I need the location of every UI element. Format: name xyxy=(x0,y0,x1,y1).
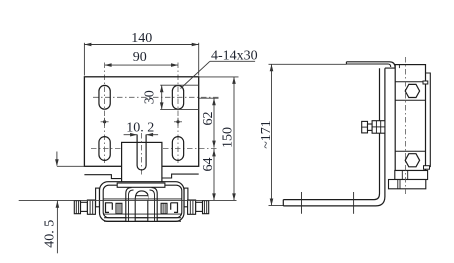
clamp trunnion bar top edge xyxy=(103,198,182,200)
bolt right head xyxy=(203,201,209,214)
clamp yoke inner xyxy=(103,185,182,218)
svg-text:40. 5: 40. 5 xyxy=(43,220,58,248)
bolt boss lower xyxy=(395,151,429,169)
node centerline row1 xyxy=(93,96,219,98)
node centerline row2 xyxy=(91,148,219,150)
tongue xyxy=(122,142,162,183)
node center mark left xyxy=(101,118,109,126)
clamp step1 xyxy=(395,171,428,180)
side view dash-dot centerline xyxy=(404,57,406,194)
svg-text:30: 30 xyxy=(143,90,158,104)
clamp saddle dome xyxy=(135,191,149,200)
clamp bottom bar lines across legs xyxy=(104,217,181,219)
clamp step2 xyxy=(389,180,426,189)
grease bolt shaft xyxy=(368,124,373,130)
grease bolt head xyxy=(362,121,368,132)
side washer tab right xyxy=(184,188,188,207)
slot top-right 14x30 xyxy=(172,85,183,109)
angle bracket leg end cap xyxy=(282,200,284,206)
U-slot in tongue xyxy=(137,135,146,170)
svg-text:~171: ~171 xyxy=(259,120,274,149)
dimension 90 xyxy=(105,50,178,67)
dimension 64 xyxy=(201,149,216,201)
slot bottom-right 14x30 xyxy=(172,137,183,161)
dimension 30 slot xyxy=(143,85,199,109)
svg-text:140: 140 xyxy=(131,31,152,46)
dimension 150 xyxy=(221,77,236,200)
bolt hex lower xyxy=(405,154,419,167)
angle bracket outer profile xyxy=(283,68,385,206)
hanger strap step right xyxy=(158,174,199,182)
svg-text:90: 90 xyxy=(133,50,147,65)
hanger strap step left xyxy=(84,175,125,183)
label 4-14x30 with leader xyxy=(181,49,258,89)
extension line row1 right xyxy=(199,97,219,99)
bolt right washer nut xyxy=(188,200,196,214)
bolt right shaft xyxy=(196,202,203,211)
dimension 62 xyxy=(201,98,216,147)
side washer tab left xyxy=(96,188,100,207)
U-slot centerline xyxy=(141,133,143,176)
wire extension line cable axis xyxy=(19,199,237,201)
clamp back plate edge xyxy=(426,73,431,167)
clamp trunnion bar bottom edge xyxy=(103,213,182,215)
angle leg hole centerline 2 xyxy=(353,192,355,214)
dimension 40.5 xyxy=(43,201,60,254)
dimension 10.2 xyxy=(124,120,159,136)
leader arrow plate bottom left xyxy=(55,152,84,167)
tongue flange xyxy=(117,183,165,187)
dimension 140 xyxy=(84,31,198,75)
node centerline column right xyxy=(177,63,179,164)
clamp leg left xyxy=(126,188,135,221)
angle bracket inner profile xyxy=(283,68,379,199)
nut inner left xyxy=(116,203,122,214)
clamp yoke outer xyxy=(100,182,185,222)
dimension ~171 xyxy=(259,64,347,205)
node centerline column left xyxy=(104,63,106,164)
bolt left shaft xyxy=(81,202,88,211)
clamp leg right xyxy=(148,188,157,221)
slot bottom-left 14x30 xyxy=(99,137,110,161)
extension line plate top right xyxy=(199,76,239,78)
slot top-left 14x30 xyxy=(99,85,110,109)
clamp body top edge xyxy=(385,67,422,69)
svg-text:62: 62 xyxy=(201,112,216,126)
keeper bracket right xyxy=(171,203,178,213)
svg-text:64: 64 xyxy=(201,158,216,172)
bolt boss upper xyxy=(395,65,428,101)
svg-text:150: 150 xyxy=(221,127,236,148)
clamp saddle chord xyxy=(135,195,149,197)
top lip outer xyxy=(346,62,395,68)
node center mark right xyxy=(174,118,182,126)
bolt left head xyxy=(74,201,80,214)
clamp body box xyxy=(395,65,425,171)
grease bolt nut xyxy=(372,121,385,134)
bolt left washer nut xyxy=(87,200,95,214)
top lip end cap xyxy=(345,62,347,64)
angle leg hole centerline 1 xyxy=(301,192,303,214)
keeper bracket left xyxy=(106,203,113,213)
bolt hex upper xyxy=(405,84,419,97)
nut inner right xyxy=(161,203,167,214)
top lip inner xyxy=(346,64,390,67)
plate front view xyxy=(84,77,198,167)
